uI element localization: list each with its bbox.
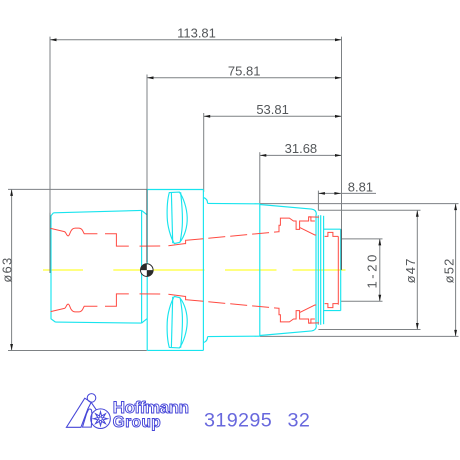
arrows 75.81 <box>147 76 154 79</box>
ext line 75.81 overlay over flange face <box>146 190 148 263</box>
flange right face <box>202 190 204 351</box>
svg-text:1-20: 1-20 <box>365 252 380 288</box>
dim line 53.81 <box>204 115 342 117</box>
red bore taper upper (dashed) <box>186 232 278 241</box>
upper lens inner line 1 <box>171 193 172 243</box>
red coupling profile lower <box>51 304 98 312</box>
dim line 8.81 <box>318 192 376 194</box>
dim line 113.81 <box>50 39 342 41</box>
fillet flange to mid bottom <box>203 337 207 343</box>
svg-text:ø47: ø47 <box>403 257 418 283</box>
svg-text:53.81: 53.81 <box>256 102 289 117</box>
ext line right main <box>341 37 343 270</box>
ext line 75.81 <box>146 75 148 264</box>
groove chamfer bottom <box>142 319 148 324</box>
svg-text:113.81: 113.81 <box>177 26 216 41</box>
ext line 8.81 <box>317 191 319 211</box>
coupling end face <box>141 210 143 323</box>
ext line dia47 bottom <box>318 329 420 331</box>
ext line main right overlay over body face <box>340 229 342 270</box>
flange left face <box>146 190 148 351</box>
arrows 53.81 <box>204 115 211 118</box>
logo head <box>87 394 96 403</box>
red right end upper <box>325 232 339 236</box>
mid cylinder bottom edge <box>208 335 260 337</box>
logo wheel <box>91 409 111 429</box>
ext line dia47 top <box>318 209 420 211</box>
svg-text:319295: 319295 <box>204 410 272 432</box>
arrows 113.81 <box>50 38 57 41</box>
logo right leg <box>83 409 92 427</box>
red collet front cone upper <box>300 227 317 235</box>
nut ring 1 <box>315 215 317 326</box>
lower lens inner line 2 <box>180 298 182 348</box>
dim line 31.68 <box>260 154 342 156</box>
logo wordmark <box>113 398 189 431</box>
red collet front cone lower <box>300 305 317 313</box>
logo gear star <box>94 412 108 426</box>
fillet flange to mid top <box>203 197 207 203</box>
red bore taper lower (dashed) <box>186 300 278 309</box>
nut ring 4 <box>323 216 325 324</box>
front cylinder top edge <box>324 228 341 230</box>
arrows 1-20 <box>378 239 381 246</box>
coupling bottom edge <box>56 322 142 323</box>
ext line dia52 top <box>260 203 459 205</box>
red coupling profile upper <box>51 228 98 236</box>
red collet profile upper <box>279 217 315 232</box>
part number <box>204 410 310 432</box>
svg-text:ø63: ø63 <box>0 257 15 283</box>
logo gear hub <box>99 417 103 421</box>
nut ring 3 <box>320 215 322 325</box>
upper lens outline <box>167 192 187 244</box>
nut ring 2 <box>317 215 319 325</box>
ext line 113.81 overlay over coupling face <box>49 213 51 273</box>
logo body triangle <box>66 398 91 427</box>
arrows 31.68 <box>260 154 267 157</box>
dim line dia47 <box>416 210 418 329</box>
svg-text:8.81: 8.81 <box>348 180 373 195</box>
svg-text:32: 32 <box>288 410 311 432</box>
flange top edge <box>147 189 203 191</box>
arrows dia52 <box>454 204 457 211</box>
svg-text:Group: Group <box>113 414 161 431</box>
dim line 1-20 <box>379 239 381 301</box>
svg-text:31.68: 31.68 <box>285 141 318 156</box>
ext line left 113.81 <box>49 37 51 273</box>
logo arm <box>91 402 97 410</box>
front cylinder bottom edge <box>324 310 341 312</box>
coupling top edge <box>53 210 141 212</box>
arrows dia47 <box>416 210 419 217</box>
center mark circle <box>141 264 154 277</box>
ext line 53.81 <box>203 113 205 192</box>
arrows dia63 <box>10 189 13 196</box>
red bore end face <box>337 236 339 304</box>
ext line dia63 top <box>8 188 147 190</box>
coupling left face <box>51 213 56 322</box>
ext line 31.68 <box>259 152 261 203</box>
dim line dia52 <box>455 204 457 337</box>
flange bottom edge <box>147 349 203 351</box>
svg-text:75.81: 75.81 <box>228 64 261 79</box>
arrows 8.81 <box>318 192 325 195</box>
svg-text:ø52: ø52 <box>442 257 457 283</box>
nut taper top <box>260 205 317 215</box>
nut taper bottom <box>260 326 317 336</box>
centerline <box>43 269 83 271</box>
mid cylinder top edge <box>208 202 260 204</box>
red right end lower <box>325 304 339 308</box>
red collet profile lower <box>279 308 315 323</box>
nut rear face <box>259 204 261 336</box>
dim line 75.81 <box>147 77 342 79</box>
ext line 1-20 top <box>342 238 383 240</box>
ext line dia52 bottom <box>260 335 459 337</box>
lower lens outline <box>167 296 187 348</box>
ext line 1-20 bottom <box>341 300 383 302</box>
upper lens inner line 2 <box>180 192 182 242</box>
ext line dia63 bottom <box>8 350 147 352</box>
lower lens inner line 1 <box>171 297 172 347</box>
groove chamfer top <box>142 210 148 215</box>
front cylinder right face <box>340 229 342 310</box>
dim line dia63 <box>11 189 13 350</box>
